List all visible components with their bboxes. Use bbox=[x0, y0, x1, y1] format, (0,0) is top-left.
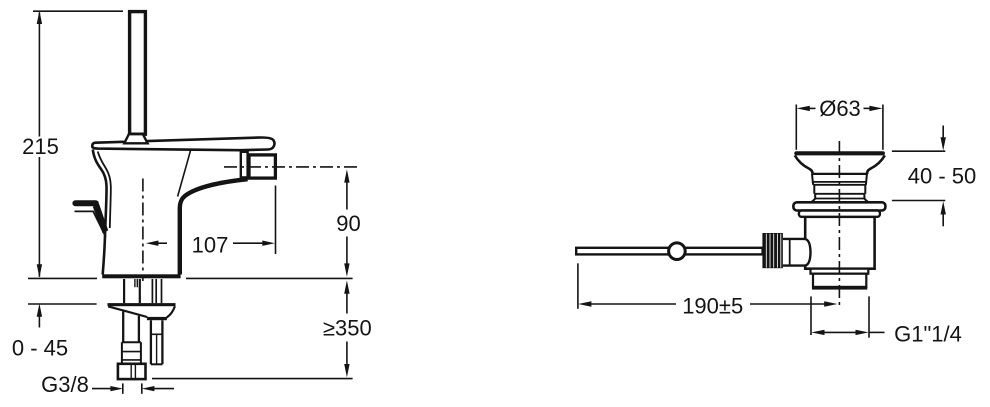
flange gasket bbox=[799, 211, 880, 217]
knurled nut bbox=[762, 233, 783, 268]
shank stub lines bbox=[135, 279, 137, 287]
threaded tail body bbox=[813, 274, 866, 287]
dimension 215 arrow up bbox=[37, 11, 42, 24]
dimension >=350 arrow up bbox=[344, 280, 349, 293]
knurled nut ribs bbox=[766, 234, 781, 268]
drain body bbox=[805, 217, 874, 269]
deck surface line left segment bbox=[28, 277, 97, 279]
mounting wedge top bar bbox=[108, 303, 176, 306]
dimension G1-1/4 left extension line bbox=[810, 296, 812, 335]
faucet body left inner contour bbox=[98, 152, 111, 229]
spout centerline bbox=[224, 166, 358, 168]
dimension 40-50 lower tail bbox=[942, 213, 944, 226]
dimension G3/8 left-pointing arrowhead bbox=[142, 386, 155, 391]
faucet body left outer edge bbox=[93, 150, 107, 275]
bottom reference line (>=350) bbox=[152, 378, 353, 380]
hose ferrule rings bbox=[122, 352, 141, 360]
side port bbox=[783, 239, 811, 266]
faucet handle bar bbox=[130, 12, 146, 135]
flange neck flare out bbox=[810, 199, 869, 203]
threaded tail ring bbox=[811, 269, 869, 274]
dimension 90 arrow down bbox=[344, 263, 349, 276]
svg-text:Ø63: Ø63 bbox=[819, 96, 861, 121]
dimension G1-1/4 line bbox=[824, 331, 856, 333]
dimension G1-1/4 right arrow bbox=[856, 330, 869, 335]
faucet body centerline bbox=[142, 179, 144, 282]
hose ferrule bbox=[122, 342, 141, 364]
threaded tail bottom bar bbox=[812, 286, 867, 289]
drain rod joint line bbox=[151, 333, 163, 335]
svg-text:G1"1/4: G1"1/4 bbox=[894, 321, 962, 346]
dimension 215 arrow down bbox=[37, 264, 42, 277]
svg-text:190±5: 190±5 bbox=[682, 293, 743, 318]
mounting wedge bottom bar bbox=[147, 317, 167, 320]
mounting wedge right curve bbox=[167, 306, 175, 317]
faucet body right edge upper (thin) bbox=[178, 151, 191, 197]
svg-text:G3/8: G3/8 bbox=[41, 372, 89, 397]
flange disc bbox=[793, 202, 885, 210]
dimension 107 left tail bbox=[158, 242, 167, 244]
drain pull rod bbox=[576, 248, 762, 255]
mounting wedge left diagonal bbox=[108, 306, 147, 317]
dimension 90 lower line bbox=[346, 237, 348, 266]
supply hose upper right wall bbox=[139, 279, 141, 303]
side lever strut bbox=[93, 204, 108, 234]
dimension 190+-5 left line bbox=[591, 303, 676, 305]
flange taper sides bbox=[812, 174, 867, 185]
rod ball joint bbox=[669, 243, 686, 260]
faucet handle flare bbox=[124, 134, 147, 143]
dimension 190+-5 right arrow bbox=[824, 301, 837, 306]
dimension 107 right line bbox=[233, 242, 263, 244]
dimension 90 upper line bbox=[346, 181, 348, 210]
svg-text:215: 215 bbox=[22, 134, 59, 159]
spout underside silhouette bbox=[180, 179, 248, 274]
flange section lines bbox=[813, 182, 867, 185]
svg-text:90: 90 bbox=[336, 211, 360, 236]
hose hex nut G3/8 bbox=[118, 364, 146, 379]
dimension 90 arrow up bbox=[344, 169, 349, 182]
dimension G1-1/4 leader bbox=[869, 331, 885, 333]
dimension 40-50 top extension line bbox=[892, 150, 945, 152]
dimension O63 left extension line bbox=[795, 105, 797, 150]
dimension 215 line upper bbox=[38, 13, 40, 137]
dimension G1-1/4 right extension line bbox=[868, 296, 870, 337]
faucet handle top extension line bbox=[33, 10, 123, 12]
dimension >=350 lower line bbox=[346, 342, 348, 366]
flange neck ring 2 bbox=[815, 198, 864, 200]
dimension 40-50 arrow up bbox=[941, 201, 946, 214]
dimension O63 right tail bbox=[864, 107, 870, 109]
supply hose lower walls bbox=[123, 311, 139, 342]
svg-text:0 - 45: 0 - 45 bbox=[12, 335, 68, 360]
flange top rim bbox=[794, 151, 885, 155]
dimension 215 line lower bbox=[38, 157, 40, 277]
dimension 107 left arrow bbox=[146, 241, 159, 246]
dimension O63 left tail bbox=[809, 107, 815, 109]
flange trumpet left side bbox=[795, 155, 813, 174]
dimension >=350 arrow down bbox=[344, 364, 349, 377]
flange neck sides lower bbox=[815, 194, 864, 199]
flange trumpet right side bbox=[867, 155, 885, 174]
aerator housing bbox=[249, 155, 275, 178]
svg-text:40 - 50: 40 - 50 bbox=[908, 163, 977, 188]
flange neck ring 1 bbox=[814, 193, 865, 195]
side port collar line bbox=[789, 239, 791, 266]
dimension 190+-5 right line bbox=[750, 303, 825, 305]
supply hose upper left wall bbox=[123, 279, 125, 303]
dimension 40-50 bottom extension line bbox=[892, 200, 945, 202]
dimension 107 right arrow bbox=[262, 241, 275, 246]
drain centerline bbox=[838, 141, 840, 309]
flange shoulder line bbox=[812, 173, 868, 175]
hex nut facet lines bbox=[131, 364, 135, 379]
drain rod bottom cap bbox=[151, 363, 163, 365]
dimension 40-50 arrow down bbox=[941, 137, 946, 150]
svg-text:≥350: ≥350 bbox=[323, 315, 372, 340]
flange neck sides upper bbox=[814, 185, 865, 194]
dimension G3/8 left line bbox=[92, 388, 111, 390]
dimension 40-50 upper tail bbox=[942, 126, 944, 140]
drain rod upper walls bbox=[152, 279, 161, 303]
side lever thin edge bbox=[75, 211, 106, 236]
dimension G3/8 right tail bbox=[154, 388, 174, 390]
dimension >=350 upper line bbox=[346, 292, 348, 314]
dimension O63 right extension line bbox=[882, 105, 884, 150]
deck surface line right segment bbox=[186, 277, 353, 279]
dimension O63 left arrow bbox=[797, 106, 810, 111]
side lever bar bbox=[72, 200, 98, 206]
svg-text:107: 107 bbox=[192, 232, 229, 257]
drain rod middle line bbox=[156, 334, 158, 364]
dimension G3/8 tick left bbox=[122, 383, 124, 393]
dimension G3/8 right arrowhead (pointing right) bbox=[110, 386, 123, 391]
dimension 0-45 tail line bbox=[38, 315, 40, 328]
dimension O63 right arrow bbox=[869, 106, 882, 111]
faucet top plate bbox=[92, 138, 274, 151]
faucet base block bbox=[102, 274, 180, 278]
dimension 190+-5 extension line bbox=[577, 263, 579, 309]
drain rod lower walls bbox=[151, 320, 163, 364]
dimension 0-45 arrow up bbox=[37, 303, 42, 316]
dimension 190+-5 left arrow bbox=[578, 301, 591, 306]
dimension G1-1/4 left arrow bbox=[811, 330, 824, 335]
dimension 107 extension line at spout tip bbox=[275, 186, 277, 255]
dimension G3/8 tick right bbox=[141, 383, 143, 393]
deck lower limit line (0-45) bbox=[28, 303, 97, 305]
spout bracket bbox=[241, 152, 248, 178]
